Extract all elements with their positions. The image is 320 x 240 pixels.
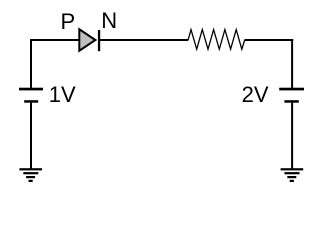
label 2V <box>242 82 269 107</box>
wire right lower: battery V2 to ground <box>291 103 293 169</box>
svg-text:2V: 2V <box>242 82 269 107</box>
wire left vertical: corner down to battery V1 <box>30 39 32 89</box>
wire top-middle: diode cathode to resistor <box>100 39 188 41</box>
diode D1 (P-N) anode triangle and cathode bar <box>79 29 100 51</box>
ground GND right <box>281 168 304 182</box>
label 1V <box>49 82 76 107</box>
label N (cathode) <box>101 8 117 33</box>
svg-text:P: P <box>61 9 76 34</box>
battery V2 positive plate (long) <box>279 88 304 91</box>
wire top-right: resistor to right corner <box>245 39 294 41</box>
label P (anode) <box>61 9 76 34</box>
wire right vertical: corner down to battery V2 <box>291 39 293 89</box>
battery V1 positive plate (long) <box>19 88 43 91</box>
wire top-left: left corner to diode anode <box>30 39 80 41</box>
battery V1 negative plate (short) <box>24 100 38 103</box>
resistor R1 zigzag <box>188 30 245 50</box>
ground GND left <box>19 168 42 182</box>
svg-text:1V: 1V <box>49 82 76 107</box>
wire left lower: battery V1 to ground <box>30 103 32 169</box>
svg-text:N: N <box>101 8 117 33</box>
battery V2 negative plate (short) <box>284 100 298 103</box>
